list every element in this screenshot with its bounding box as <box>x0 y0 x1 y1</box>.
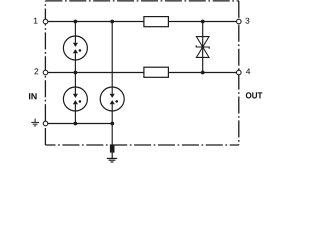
node: junction line2 / TVS branch <box>201 71 205 75</box>
wire: line 2 from terminal 2 to terminal 4 <box>46 72 239 74</box>
resistor (series, line 1) <box>144 17 169 27</box>
label OUT <box>246 92 262 98</box>
terminal 2 <box>43 70 48 75</box>
label 1 <box>34 18 38 24</box>
terminal 3 <box>237 19 242 24</box>
feed-through earth connection bar (black) <box>110 145 115 153</box>
label 3 <box>245 18 249 24</box>
terminal earth (left) <box>43 121 48 126</box>
node: junction line1 / rail B <box>110 20 114 24</box>
node: junction line2 / rail A <box>74 71 78 75</box>
bidirectional suppressor diode (TVS) <box>196 37 209 58</box>
wire: rail B vertical (line1 to earth, through lower-right arrester) <box>111 22 113 146</box>
terminal 4 <box>237 70 242 75</box>
label 4 <box>246 68 250 74</box>
gas discharge tube (lower left) <box>63 87 87 111</box>
wire: line 1 from terminal 1 to terminal 3 <box>46 21 239 23</box>
earth symbol (left, beside earth terminal) <box>31 119 39 126</box>
earth symbol (bottom, below enclosure) <box>107 153 117 163</box>
resistor (series, line 2) <box>144 67 169 77</box>
wire: TVS branch vertical <box>202 22 204 73</box>
wire: ground line from earth terminal to node B2 <box>46 123 113 125</box>
gas discharge tube (top, between line1 and line2) <box>63 36 87 60</box>
label 2 <box>35 68 39 74</box>
node: junction ground line / rail A <box>74 122 78 126</box>
gas discharge tube (lower right) <box>100 87 124 111</box>
node: junction line1 / TVS branch <box>201 20 205 24</box>
enclosure boundary (dash-dot border) <box>45 1 238 145</box>
label IN <box>29 93 37 99</box>
node: junction line1 / rail A <box>74 20 78 24</box>
node: junction ground line / rail B <box>110 122 114 126</box>
terminal 1 <box>43 19 48 24</box>
wire: rail A vertical (through top and lower-left arresters) <box>74 22 76 124</box>
